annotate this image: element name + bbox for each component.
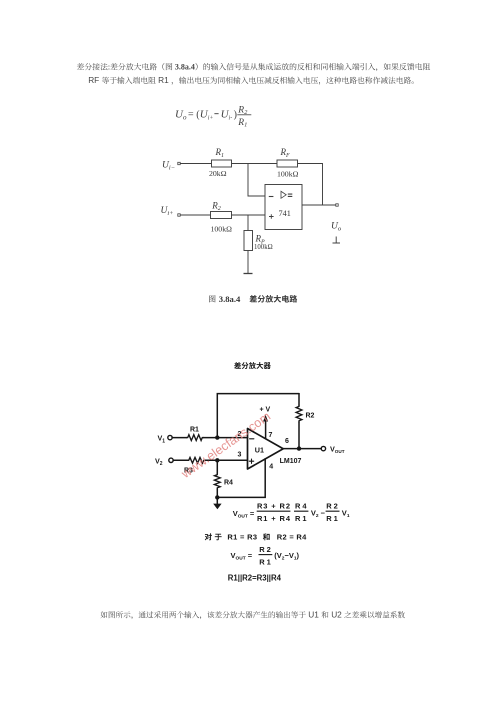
svg-text:V2 −: V2 − (311, 509, 326, 520)
svg-text:100kΩ: 100kΩ (277, 169, 299, 178)
wire V2 to R3 (173, 459, 187, 461)
svg-text:R1: R1 (259, 557, 271, 566)
svg-text:7: 7 (269, 432, 273, 439)
svg-text:RF: RF (280, 147, 291, 159)
svg-text:VOUT: VOUT (330, 445, 345, 455)
formula Vout main (233, 501, 350, 523)
svg-text:R2: R2 (326, 501, 338, 510)
svg-text:R1: R1 (295, 514, 307, 523)
resistor R3 zigzag (188, 457, 206, 463)
resistor R1 20k box (212, 160, 232, 167)
condition line (227, 533, 307, 542)
svg-text:R2: R2 (306, 413, 315, 420)
node Vout terminal (321, 446, 325, 450)
ground symbol at output (333, 237, 341, 244)
junction ground node (215, 495, 219, 499)
op-amp plus marker (249, 459, 253, 463)
paragraph line 2 (88, 75, 414, 85)
resistor R4 zigzag vertical (214, 473, 220, 489)
resistor R2 100k box (211, 212, 232, 219)
svg-text:R1||R2=R3||R4: R1||R2=R3||R4 (228, 573, 282, 582)
svg-text:(V2−V1): (V2−V1) (274, 551, 299, 562)
op-amp minus marker (250, 438, 254, 440)
formula fraction bar (237, 114, 251, 116)
formula Uo=(Ui+ - Ui-)R2/R1 (175, 106, 248, 129)
title: second diagram (234, 362, 271, 369)
svg-text:Ui+: Ui+ (161, 206, 174, 217)
svg-text:LM107: LM107 (280, 458, 302, 465)
svg-text:R1 = R3: R1 = R3 (227, 533, 257, 542)
bottom paragraph (101, 610, 405, 620)
node Ui- input terminal (178, 162, 180, 164)
op-amp plus sign (269, 214, 274, 219)
wire rail down to R2 (298, 394, 300, 406)
svg-text:Uo: Uo (175, 109, 187, 122)
wire RP to ground (247, 251, 249, 274)
junction pin3 node (215, 458, 219, 462)
fraction bars Vout main (257, 510, 340, 512)
svg-text:U1: U1 (308, 610, 319, 620)
resistor R1 zigzag (187, 435, 204, 441)
svg-text:Ui-: Ui- (221, 109, 233, 122)
svg-text:4: 4 (269, 464, 273, 471)
svg-text:Uo: Uo (331, 222, 342, 233)
wire junction to inverting input (248, 164, 265, 197)
svg-text:V1: V1 (342, 509, 350, 520)
svg-text:V1: V1 (158, 434, 166, 445)
fraction bar simplified (259, 554, 273, 556)
op-amp U1 741 box (265, 185, 302, 230)
wire RF to output node corner (298, 164, 323, 206)
svg-text:R1: R1 (237, 118, 247, 129)
svg-text:VOUT =: VOUT = (231, 551, 253, 562)
formula Vout simplified (231, 545, 300, 567)
svg-text:R1: R1 (326, 514, 338, 523)
wire feedback up and across (217, 394, 299, 438)
svg-text:3.8a.4: 3.8a.4 (219, 294, 241, 304)
svg-text:RF: RF (88, 75, 99, 85)
node Ui+ input terminal (178, 214, 180, 216)
svg-text::: : (108, 63, 110, 72)
svg-text:100kΩ: 100kΩ (211, 224, 233, 233)
svg-text:=: = (188, 110, 194, 121)
svg-text:Ui+: Ui+ (200, 109, 214, 122)
svg-text:U2: U2 (331, 610, 342, 620)
resistor R2 zigzag vertical (296, 405, 302, 422)
wire R1 to pin2 node (204, 437, 248, 439)
ground bar (244, 273, 253, 275)
wire R3 to pin3 node (205, 459, 248, 461)
svg-text:Ui−: Ui− (162, 160, 175, 171)
svg-text:R4: R4 (224, 480, 233, 487)
svg-text:): ) (234, 110, 237, 121)
svg-text:R1: R1 (190, 426, 199, 433)
svg-text:741: 741 (279, 209, 291, 218)
caption (209, 295, 215, 302)
pin 7 wire and +V arrow (265, 421, 267, 439)
svg-text:3.8a.4: 3.8a.4 (175, 63, 195, 72)
wire Ui- to R1 (180, 163, 211, 165)
svg-text:R1: R1 (158, 75, 169, 85)
svg-text:R2: R2 (259, 545, 271, 554)
svg-text:R3 + R2: R3 + R2 (257, 501, 290, 510)
resistor RP box (244, 231, 253, 251)
svg-text:20kΩ: 20kΩ (209, 169, 227, 178)
op-amp infinity symbol (288, 194, 293, 196)
wire R2 to output node (298, 422, 300, 449)
wire R4 to ground node (216, 489, 218, 497)
ground symbol (scan) (216, 497, 218, 503)
svg-text:R1: R1 (215, 147, 225, 159)
svg-text:100kΩ: 100kΩ (254, 244, 273, 251)
node V1 terminal (168, 435, 172, 439)
node output terminal (336, 204, 338, 206)
wire R1 to RF (232, 163, 278, 165)
wire output to terminal (283, 448, 321, 450)
wire ground node to pin4 (217, 459, 265, 498)
paragraph line 1 (77, 63, 430, 72)
svg-text:R1 + R4: R1 + R4 (257, 514, 291, 523)
wire V1 to R1 (172, 437, 186, 439)
wire R2 to noninverting input (232, 214, 266, 216)
wire op-amp output (302, 204, 336, 206)
wire pin3 node down to R4 (216, 460, 218, 473)
svg-text:VOUT =: VOUT = (233, 509, 255, 520)
svg-text:U1: U1 (255, 446, 264, 455)
svg-text:V2: V2 (155, 456, 163, 467)
wire Ui+ to R2 (180, 214, 210, 216)
op-amp U1 triangle (248, 429, 284, 470)
resistor RF 100k box (277, 160, 298, 167)
svg-text:R4: R4 (295, 501, 307, 510)
node V2 terminal (169, 458, 173, 462)
op-amp gain triangle symbol (281, 191, 286, 198)
junction output node (297, 446, 301, 450)
svg-text:R2: R2 (211, 200, 221, 212)
junction pin2 node (215, 435, 219, 439)
svg-text:6: 6 (285, 438, 289, 445)
op-amp minus sign (269, 196, 274, 198)
svg-text:R2 = R4: R2 = R4 (277, 533, 307, 542)
svg-text:3: 3 (238, 452, 242, 459)
wire junction down to RP (247, 215, 249, 231)
